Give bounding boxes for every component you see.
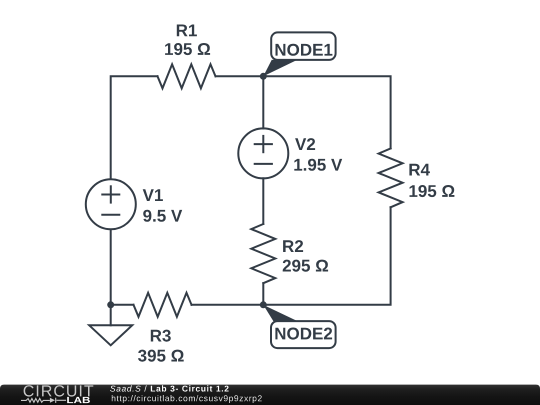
logo symbol resistor: [21, 398, 66, 403]
label V2: [295, 138, 315, 150]
NODE1 text: [276, 44, 333, 56]
wire: ground stem: [110, 305, 112, 326]
junction dot left-bottom: [107, 301, 114, 308]
wire: R3 to left junction: [111, 304, 134, 306]
wire: left branch top + top wire left of R1: [111, 76, 158, 177]
NODE1 pointer: [263, 60, 297, 76]
label V1: [143, 189, 163, 201]
wire: middle branch top: [262, 76, 264, 128]
NODE2 pointer: [263, 305, 298, 322]
voltage source V2: [238, 128, 288, 178]
label R1 value: [165, 43, 210, 55]
footer url: [112, 395, 262, 403]
label R1: [177, 25, 197, 37]
NODE2 text: [275, 328, 332, 340]
wire: right branch bottom + bottom wire right of NODE2: [263, 207, 390, 304]
NODE1 flag box: [271, 32, 335, 60]
logo diode arrow: [50, 398, 55, 403]
resistor R2: [251, 224, 275, 283]
wire: R2 to NODE2: [262, 283, 264, 305]
NODE2 flag box: [271, 321, 336, 348]
label R3 value: [138, 350, 184, 362]
footer title: [110, 385, 141, 391]
label V1 value: [143, 210, 182, 222]
junction dot NODE1: [260, 73, 267, 80]
label R2 value: [283, 260, 328, 272]
footer bar: [0, 385, 540, 405]
resistor R1: [158, 64, 216, 88]
voltage source V1: [86, 179, 136, 229]
label V2 value: [294, 159, 342, 171]
label R4 value: [410, 185, 455, 197]
resistor R3: [134, 293, 192, 317]
label R3: [151, 330, 171, 342]
junction dot NODE2: [260, 301, 267, 308]
wire: left branch below V1: [110, 231, 112, 305]
ground: [89, 325, 132, 345]
logo LAB: [67, 397, 90, 403]
wire: V2 to R2: [262, 178, 264, 224]
logo CIRCUIT: [24, 385, 94, 396]
label R4: [409, 164, 430, 176]
label R2: [283, 240, 303, 252]
wire: bottom wire NODE2 to R3: [192, 304, 264, 306]
resistor R4: [379, 148, 403, 207]
wire: top wire right of R1 + right branch top: [216, 76, 391, 148]
